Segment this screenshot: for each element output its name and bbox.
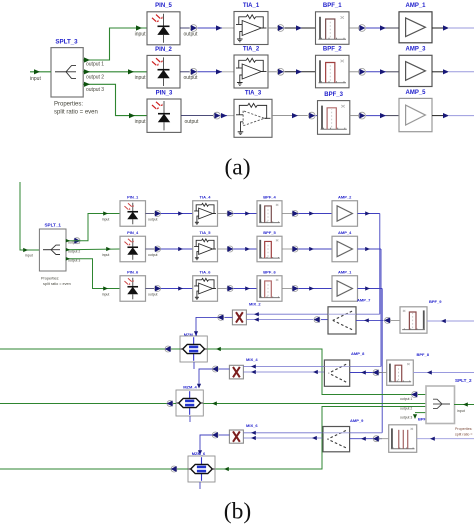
arrow into BPF_9 [441,319,446,323]
arrow into MIX_6 lower [251,436,256,440]
probe before BPF_8 [373,370,379,376]
arrow into AMP [380,69,386,74]
bandpass filter BPF_8 [387,360,414,385]
wire to AMP [366,71,386,73]
wire PIN output [180,27,190,29]
arrow into MIX_4 upper [251,364,256,368]
wire crossing AMP_9 [323,432,350,434]
arrow out2 [66,248,70,252]
wire BPF output [350,115,359,117]
arrow output1 [84,57,90,62]
svg-text:input: input [102,217,109,221]
wire TIA out [218,213,227,215]
wire to BPF [234,288,258,290]
wire stub into AMP [386,27,399,29]
arrow into AMP [380,113,386,118]
probe SPLT_1 out1 [74,238,80,244]
arrow after AMP [365,211,370,215]
svg-text:split ratio =: split ratio = [455,433,472,437]
wire PIN out [146,288,155,290]
wire LO vertical 3 [381,289,383,433]
wire AMP out [358,248,382,250]
svg-text:BPF_8: BPF_8 [417,352,430,357]
bandpass filter BPF_5 [257,236,282,262]
svg-text:BPF_5: BPF_5 [263,230,276,235]
wire stub into TIA [222,71,234,73]
wire to AMP [366,27,386,29]
bandpass filter BPF_9 [400,307,427,333]
svg-text:BPF_6: BPF_6 [263,270,276,275]
arrow into MIX_2 upper [254,312,259,316]
arrow out1 [66,239,70,243]
svg-text:BPF_1: BPF_1 [323,3,342,9]
arrow into MIX_6 upper [251,431,256,435]
arrow into BPF [245,247,250,251]
svg-text:input: input [135,75,146,81]
svg-text:BPF_9: BPF_9 [429,299,442,304]
svg-text:output: output [148,217,157,221]
wire AMP out [358,288,383,290]
probe after TIA_6 [227,286,233,292]
svg-text:PIN_6: PIN_6 [127,270,139,275]
wire LO vertical 2 [380,249,382,367]
wire AMP_8 out to MIX_4 [243,371,324,373]
wire to edge [449,115,474,117]
wire out2 to PIN_4 [66,248,120,251]
svg-text:input: input [135,119,146,125]
wire AMP output [432,71,446,73]
blue stub below MZM_3 [193,362,195,369]
arrow into AMP_8 [361,370,366,374]
svg-text:MIX_6: MIX_6 [246,423,258,428]
probe after TIA_5 [227,246,233,252]
wire LO vertical 1 [379,214,381,315]
bandpass filter BPF_1 [316,12,350,45]
wire probe to BPF_8 [380,372,387,374]
wire to TIA [198,71,223,73]
probe after PIN_2 [190,68,197,75]
photodiode PIN_1 [120,201,146,227]
svg-text:output: output [148,253,157,257]
wire to TIA [198,27,223,29]
arrow into MZM_3 right [216,347,221,351]
wire AMP out [358,213,380,215]
svg-text:TIA_6: TIA_6 [200,270,212,275]
probe after MIX_2 [218,314,224,320]
wire input into SPLT_2 [454,404,474,406]
arrow into PIN_1 [103,211,108,215]
arrow into TIA [178,247,183,251]
bandpass filter BPF_7 [389,425,417,453]
bandpass filter BPF_2 [316,55,350,88]
wire LO2 into MIX_4 [243,366,381,368]
photodiode PIN_4 [120,236,146,262]
svg-text:input: input [102,253,109,257]
svg-text:output 2: output 2 [86,74,104,80]
svg-text:PIN_4: PIN_4 [127,230,139,235]
wire green into MZM_3 right [207,349,426,395]
arrow output3 [84,82,90,87]
arrow after AMP [365,247,370,251]
svg-text:TIA_3: TIA_3 [245,91,262,97]
svg-text:SPLT_1: SPLT_1 [44,223,61,228]
amplifier AMP_9 [323,427,350,452]
wire MIX_6 to MZM_6 [200,435,212,452]
wire probe to BPF_7 [380,438,389,440]
svg-text:input: input [25,254,33,258]
wire to BPF [285,27,316,29]
svg-text:AMP_1: AMP_1 [405,3,426,9]
wire SPLT_3 output2 to PIN_2 [83,71,147,73]
photodiode PIN_2 [147,55,180,88]
probe after BPF_1 [359,25,366,32]
svg-text:MIX_4: MIX_4 [246,357,258,362]
photodiode PIN_3 [147,99,181,132]
probe after TIA_4 [227,211,233,217]
arrow into AMP_7 [364,318,369,322]
wire to TIA [161,248,193,250]
svg-text:AMP_2: AMP_2 [338,195,352,200]
probe after BPF_3 [359,112,366,119]
svg-text:output: output [148,292,157,296]
arrow down into MZM_3 [194,331,198,336]
arrow into SPLT_2 [463,402,468,406]
wire stub into TIA [227,115,234,117]
photodiode PIN_6 [120,276,146,302]
wire BPF_9 to AMP_7 [356,319,384,321]
wire AMP output [432,27,446,29]
svg-text:Properties:: Properties: [54,101,83,107]
amplifier AMP_8 [324,360,349,386]
arrow into BPF_7 [430,437,435,441]
modulator MZM_4 [176,390,203,416]
wire to AMP [299,248,333,250]
probe after PIN_1 [155,211,161,217]
svg-text:output 3: output 3 [86,87,104,93]
arrow into MIX_2 lower [254,318,259,322]
arrow into TIA [221,113,227,118]
splitter SPLT_3 [51,48,83,97]
probe before AMP_7 [314,317,320,323]
photodiode PIN_5 [147,12,180,45]
wire to BPF [285,71,316,73]
wire to TIA [221,115,227,117]
svg-text:PIN_5: PIN_5 [155,3,172,9]
wire BPF output [349,27,359,29]
wire to TIA [161,213,193,215]
probe left of MZM_6 [171,466,177,472]
wire probe BPF_9 [391,319,400,321]
wire PIN out [146,248,155,250]
amplifier AMP_1 [399,12,432,43]
arrow into TIA [216,69,222,74]
arrow into PIN_2 [128,69,134,74]
svg-text:MZM_4: MZM_4 [183,385,197,390]
arrow down into MZM_6 [198,450,202,455]
wire crossing AMP_8 [324,366,349,368]
svg-text:BPF_2: BPF_2 [323,47,342,53]
mixer MIX_4 [229,365,243,379]
svg-text:input: input [135,31,146,37]
arrow into AMP_9 [361,437,366,441]
wire MIX_4 to MZM_4 [199,369,212,385]
svg-text:BPF_4: BPF_4 [263,195,276,200]
wire BPF out [282,213,292,215]
svg-text:PIN_2: PIN_2 [155,47,172,53]
arrow into AMP [309,286,314,290]
svg-text:BPF_3: BPF_3 [324,92,343,98]
svg-text:TIA_4: TIA_4 [200,195,212,200]
arrow into BPF_8 [427,370,432,374]
wire BPF output [349,71,359,73]
arrow into MIX_6 lower2 [312,436,317,440]
svg-text:input: input [102,292,109,296]
arrow output2 [84,69,90,74]
probe left of MZM_3 [165,346,171,352]
svg-text:AMP_3: AMP_3 [405,47,426,53]
wire MZM_3 out left [0,348,180,350]
op-amp TIA_5 [193,236,218,262]
wire input to SPLT_3 [30,71,51,73]
wire TIA output [268,71,277,73]
wire green into MZM_4 right [203,403,426,405]
svg-text:(b): (b) [224,499,251,525]
wire MIX_2 to MZM_3 [196,317,218,333]
svg-text:output: output [185,119,200,125]
arrow into TIA [178,286,183,290]
arrow out3 [66,257,70,261]
svg-text:AMP_8: AMP_8 [351,351,365,356]
wire edge to BPF_7 [417,438,474,440]
arrow into AMP [380,25,386,30]
mixer MIX_2 [232,310,246,325]
wire edge to BPF_9 [427,320,474,322]
wire TIA out [218,288,227,290]
wire TIA out [218,248,227,250]
arrow after AMP [443,113,449,118]
wire to edge [449,27,474,29]
probe after TIA_3 [308,112,315,119]
arrow into MIX_4 lower [251,370,256,374]
amplifier AMP_2 [332,201,358,227]
wire AMP_9 out to MIX_6 [243,437,323,439]
wire MZM_4 out left [0,403,176,405]
wire green out3 stub [415,412,426,414]
bandpass filter BPF_6 [257,276,282,302]
svg-text:(a): (a) [224,155,250,181]
svg-text:output: output [184,75,199,81]
probe after BPF_4 [292,211,298,217]
mixer MIX_6 [229,430,243,443]
svg-text:TIA_2: TIA_2 [243,46,260,52]
wire to AMP [299,288,333,290]
arrow into BPF [245,286,250,290]
svg-text:SPLT_3: SPLT_3 [55,39,78,46]
wire stub into AMP [386,115,399,117]
svg-text:PIN_1: PIN_1 [127,195,139,200]
amplifier AMP_7 [328,307,356,334]
op-amp TIA_1 [234,12,268,45]
svg-text:Properties:: Properties: [455,427,472,431]
svg-text:MZM_6: MZM_6 [192,451,206,456]
arrow after AMP [365,286,370,290]
svg-text:AMP_5: AMP_5 [405,90,426,96]
bandpass filter BPF_4 [257,201,282,227]
op-amp TIA_6 [193,276,218,302]
wire AMP_7 out to MIX_2 [246,319,313,321]
arrow into TIA [178,211,183,215]
blue stub below MZM_6 [199,482,201,489]
arrow into PIN_4 [106,247,111,251]
probe after PIN_5 [190,25,197,32]
op-amp TIA_3 [234,99,272,137]
svg-text:AMP_4: AMP_4 [338,230,352,235]
wire LO1 into MIX_2 [246,313,379,315]
wire edge to BPF_8 [413,372,474,374]
svg-text:AMP_7: AMP_7 [357,298,371,303]
probe after TIA_2 [277,68,284,75]
svg-text:AMP_1: AMP_1 [338,270,352,275]
probe after TIA_1 [277,25,284,32]
arrow into PIN_3 [129,113,135,118]
wire PIN out [146,213,155,215]
bandpass filter BPF_3 [318,101,350,135]
arrow down into MZM_4 [197,384,201,389]
svg-text:input: input [30,76,41,82]
arrow into AMP [309,247,314,251]
wire BPF_8 to AMP_8 [350,372,383,374]
wire stub into AMP [386,71,399,73]
wire probe to AMP_7 [321,319,328,321]
wire BPF out [282,288,292,290]
blue stub below MZM_4 [189,416,191,422]
op-amp TIA_4 [193,201,218,227]
arrow into MIX_4 lower2 [313,370,318,374]
amplifier AMP_5 [399,98,432,131]
amplifier AMP_1 [332,276,358,302]
probe after BPF_6 [292,286,298,292]
arrow into PIN_5 [136,25,142,30]
op-amp TIA_2 [234,55,268,88]
probe after MIX_6 [212,432,218,438]
wire to BPF [234,248,258,250]
arrow into MZM_6 right [224,467,229,471]
wire to TIA [161,288,193,290]
svg-text:output 3: output 3 [400,416,412,420]
svg-text:split ratio = even: split ratio = even [54,110,98,116]
wire MZM_6 out left [0,468,188,470]
probe after BPF_2 [359,68,366,75]
svg-text:output 2: output 2 [400,407,412,411]
amplifier AMP_3 [399,55,432,86]
probe after BPF_5 [292,246,298,252]
arrow into MZM_4 right [212,401,217,405]
probe left of MZM_4 [167,401,173,407]
wire crossing AMP_7 [328,313,356,315]
svg-text:TIA_1: TIA_1 [243,3,260,9]
wire PIN output [181,115,213,117]
wire out1 to PIN_1 [66,214,120,241]
modulator MZM_6 [188,456,215,482]
arrow into BPF [245,211,250,215]
svg-text:SPLT_2: SPLT_2 [455,378,472,383]
probe SPLT_2 out1 [412,392,418,398]
arrow into SPLT_1 [23,248,28,252]
arrow after AMP [443,25,449,30]
arrow after AMP [443,69,449,74]
amplifier AMP_4 [332,236,358,262]
wire stub into TIA [222,27,234,29]
wire LO3 into MIX_6 [243,432,382,434]
wire TIA output [268,27,277,29]
svg-text:AMP_9: AMP_9 [350,418,364,423]
svg-text:output 1: output 1 [86,61,104,67]
arrow into AMP [309,211,314,215]
wire MIX_6 out [219,434,229,436]
arrow into BPF [292,113,298,118]
wire TIA output [272,115,308,117]
svg-text:Properties:: Properties: [41,277,59,281]
wire to AMP [299,213,333,215]
wire out3 to PIN_6 [66,259,120,289]
arrow into SPLT_3 input [34,69,40,74]
wire SPLT_3 output3 to PIN_3 [83,84,147,115]
probe after BPF_9 [385,317,391,323]
modulator MZM_3 [180,336,207,362]
svg-text:output 1: output 1 [400,397,412,401]
wire green branch vertical [215,407,426,470]
svg-text:TIA_5: TIA_5 [200,230,212,235]
wire SPLT_3 output1 to PIN_5 [83,28,147,60]
wire to edge [449,71,474,73]
probe before BPF_7 [373,436,379,442]
svg-text:output: output [184,31,199,37]
probe after MIX_4 [212,366,218,372]
arrow into TIA [216,25,222,30]
wire AMP output [432,115,446,117]
svg-text:input: input [457,409,465,413]
svg-text:split ratio = even: split ratio = even [43,282,71,286]
arrow into BPF [296,69,302,74]
wire to BPF [316,115,318,117]
wire MIX_2 out [225,316,233,318]
svg-text:MIX_2: MIX_2 [249,302,261,307]
wire to BPF [234,213,258,215]
wire optical input vertical [20,182,39,250]
splitter SPLT_2 [426,386,455,424]
arrow into PIN_6 [103,286,108,290]
arrow down out3 [413,414,417,419]
wire BPF_7 to AMP_9 [350,438,382,440]
probe after PIN_3 [214,112,221,119]
splitter SPLT_1 [39,229,66,271]
wire BPF out [282,248,292,250]
wire PIN output [180,71,190,73]
svg-text:PIN_3: PIN_3 [156,90,173,96]
wire to AMP [366,115,386,117]
probe after PIN_4 [155,246,161,252]
arrow into BPF [296,25,302,30]
wire MIX_4 out [219,368,229,370]
probe after PIN_6 [155,286,161,292]
